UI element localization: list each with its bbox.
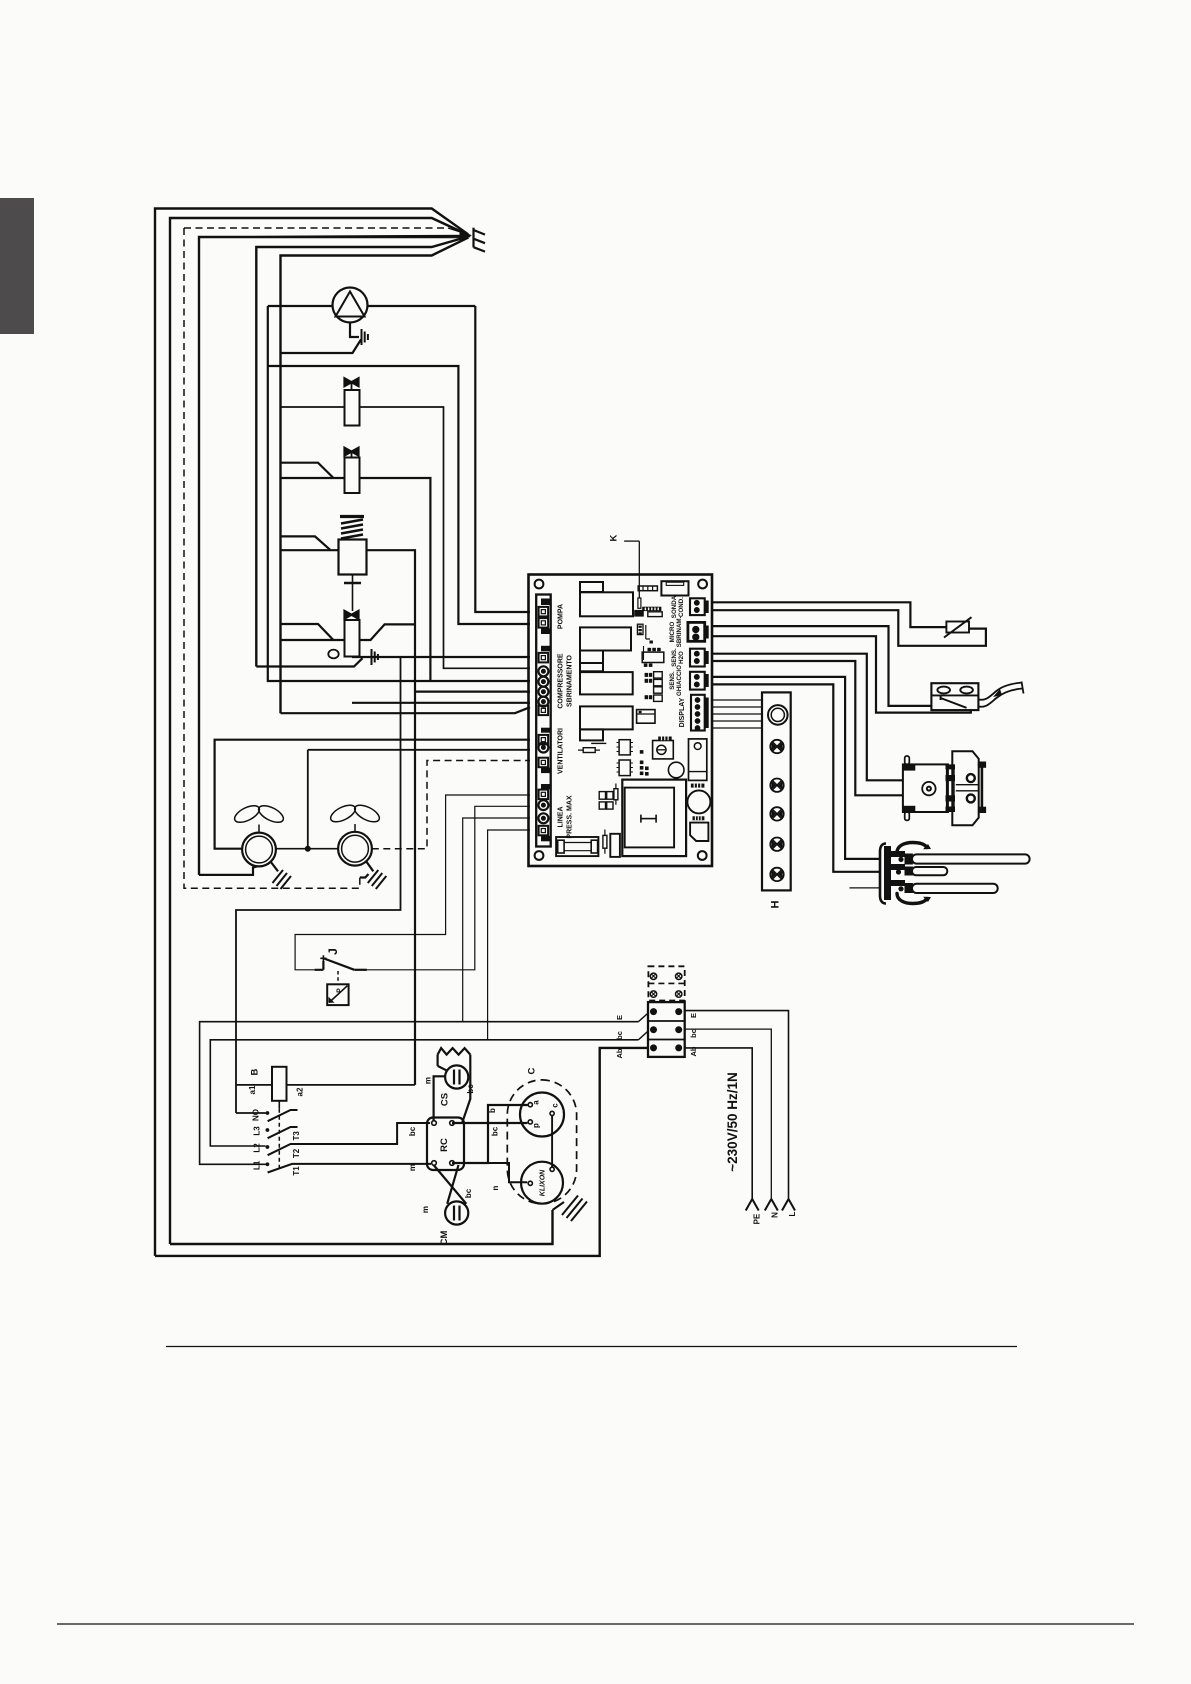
svg-text:C: C bbox=[527, 1067, 538, 1074]
svg-text:CM: CM bbox=[439, 1231, 450, 1246]
svg-text:SENS.: SENS. bbox=[669, 671, 676, 690]
svg-text:~230V/50 Hz/1N: ~230V/50 Hz/1N bbox=[725, 1072, 740, 1171]
svg-text:E: E bbox=[689, 1013, 698, 1018]
svg-text:H2O: H2O bbox=[678, 651, 685, 664]
svg-text:c: c bbox=[551, 1103, 560, 1108]
svg-text:T2: T2 bbox=[292, 1148, 301, 1158]
svg-text:L2: L2 bbox=[253, 1143, 262, 1153]
svg-text:L3: L3 bbox=[253, 1126, 262, 1136]
svg-text:DISPLAY: DISPLAY bbox=[679, 697, 686, 727]
svg-text:VENTILATORI: VENTILATORI bbox=[558, 728, 565, 774]
svg-text:MICRO: MICRO bbox=[669, 622, 676, 643]
svg-text:m: m bbox=[421, 1206, 430, 1213]
svg-text:b: b bbox=[488, 1108, 497, 1113]
svg-text:bc: bc bbox=[408, 1126, 417, 1136]
svg-text:a: a bbox=[532, 1100, 541, 1105]
svg-text:GHIACCIO: GHIACCIO bbox=[676, 665, 683, 696]
svg-text:a1: a1 bbox=[248, 1085, 257, 1094]
svg-text:bc: bc bbox=[689, 1029, 698, 1038]
svg-text:SONDA: SONDA bbox=[671, 595, 678, 618]
svg-text:K: K bbox=[609, 534, 620, 541]
svg-text:bc: bc bbox=[491, 1126, 500, 1136]
svg-text:E: E bbox=[615, 1015, 624, 1020]
svg-text:NO: NO bbox=[252, 1109, 261, 1121]
svg-text:H: H bbox=[770, 900, 782, 908]
svg-text:COND.: COND. bbox=[678, 597, 685, 617]
svg-text:T3: T3 bbox=[292, 1131, 301, 1141]
svg-text:PE: PE bbox=[753, 1213, 762, 1224]
svg-text:PRESS. MAX: PRESS. MAX bbox=[567, 795, 574, 839]
svg-text:RC: RC bbox=[439, 1138, 450, 1152]
svg-text:a2: a2 bbox=[296, 1087, 305, 1096]
svg-text:p: p bbox=[532, 1123, 541, 1128]
svg-text:L1: L1 bbox=[253, 1160, 262, 1170]
svg-text:CS: CS bbox=[440, 1093, 451, 1106]
svg-text:L: L bbox=[788, 1211, 797, 1216]
svg-text:LINEA: LINEA bbox=[558, 807, 565, 828]
svg-text:P: P bbox=[337, 988, 344, 993]
svg-text:SENS.: SENS. bbox=[671, 648, 678, 667]
svg-text:SBRINAM.: SBRINAM. bbox=[676, 616, 683, 647]
svg-text:Ab: Ab bbox=[615, 1048, 624, 1058]
svg-text:KLIXON: KLIXON bbox=[540, 1169, 547, 1196]
svg-text:J: J bbox=[326, 948, 340, 955]
svg-text:POMPA: POMPA bbox=[558, 604, 565, 629]
svg-text:bc: bc bbox=[466, 1084, 475, 1094]
svg-text:SBRINAMENTO: SBRINAMENTO bbox=[567, 654, 574, 707]
svg-text:m: m bbox=[408, 1164, 417, 1171]
svg-text:n: n bbox=[491, 1185, 500, 1190]
svg-text:B: B bbox=[250, 1068, 261, 1075]
svg-text:bc: bc bbox=[464, 1188, 473, 1198]
svg-text:m: m bbox=[424, 1077, 433, 1084]
svg-text:T1: T1 bbox=[292, 1166, 301, 1176]
svg-text:N: N bbox=[771, 1212, 780, 1218]
svg-text:COMPRESSORE: COMPRESSORE bbox=[558, 653, 565, 709]
svg-text:Ab: Ab bbox=[689, 1046, 698, 1056]
svg-text:bc: bc bbox=[615, 1031, 624, 1040]
